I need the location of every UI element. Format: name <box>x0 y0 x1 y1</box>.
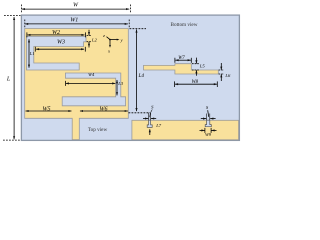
svg-text:W4: W4 <box>88 72 95 77</box>
svg-text:W2: W2 <box>52 30 60 36</box>
svg-text:W9: W9 <box>205 132 212 137</box>
svg-text:W8: W8 <box>192 80 199 85</box>
svg-text:W3: W3 <box>57 40 65 46</box>
svg-text:z: z <box>102 33 105 38</box>
svg-text:L: L <box>6 76 11 82</box>
svg-text:W5: W5 <box>43 107 51 113</box>
svg-text:L2: L2 <box>91 38 98 43</box>
svg-text:L5: L5 <box>199 63 206 68</box>
svg-text:L7: L7 <box>155 123 162 128</box>
svg-text:L6: L6 <box>224 73 231 78</box>
svg-text:W7: W7 <box>178 56 185 61</box>
svg-text:W1: W1 <box>70 18 78 24</box>
svg-text:L3: L3 <box>117 81 124 86</box>
svg-text:L4: L4 <box>138 72 145 79</box>
svg-text:W6: W6 <box>100 107 108 113</box>
svg-text:L1: L1 <box>29 51 35 56</box>
svg-text:Top view: Top view <box>88 127 108 133</box>
svg-text:x: x <box>107 48 110 53</box>
svg-text:Bottom view: Bottom view <box>171 22 198 28</box>
